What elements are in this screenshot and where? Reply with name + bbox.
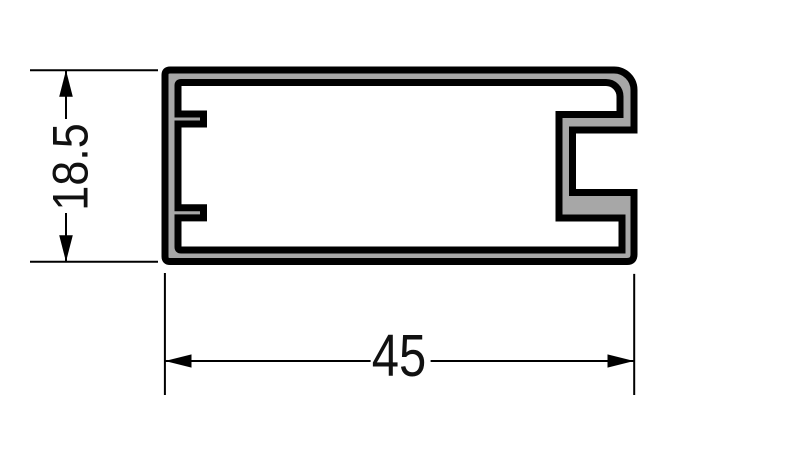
dimension 45 : left arrow: [165, 354, 192, 367]
dimension 18.5 : up arrow: [59, 70, 73, 97]
dimension 18.5 : dimension line lower segment: [65, 213, 67, 262]
svg-text:45: 45: [372, 324, 426, 389]
dimension 45 : right arrow: [608, 354, 635, 367]
dimension 18.5 : down arrow: [59, 235, 73, 262]
dimension 45 : left extension line: [164, 273, 166, 395]
dimension 18.5 : dimension line upper segment: [65, 70, 67, 119]
dimension 18.5 : bottom extension line: [30, 261, 158, 263]
dimension 45 : dimension line right segment: [431, 360, 634, 362]
svg-text:18.5: 18.5: [43, 123, 99, 211]
profile body (aluminium extrusion cross-section, walls filled gray): [165, 70, 634, 262]
dimension 18.5 : top extension line: [30, 69, 158, 71]
dimension 45 : dimension line left segment: [165, 360, 371, 362]
dimension 45 : right extension line: [633, 274, 635, 395]
